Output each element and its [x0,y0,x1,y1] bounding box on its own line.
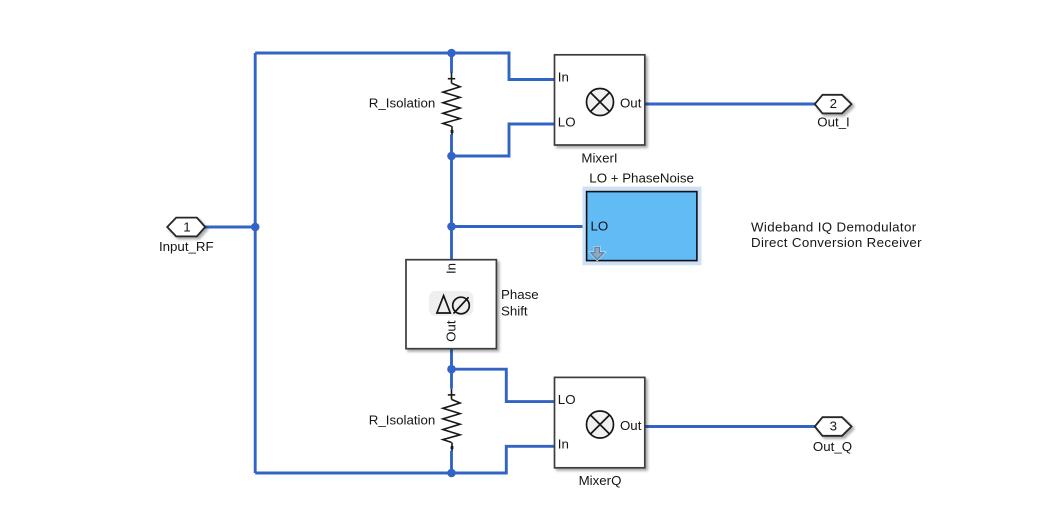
svg-text:Out_I: Out_I [817,115,850,130]
svg-text:R_Isolation: R_Isolation [369,96,436,111]
svg-text:LO + PhaseNoise: LO + PhaseNoise [589,171,694,186]
svg-text:Input_RF: Input_RF [159,239,214,254]
svg-text:In: In [558,436,569,451]
svg-text:MixerI: MixerI [581,151,617,166]
svg-text:Out_Q: Out_Q [813,439,852,454]
svg-text:Shift: Shift [501,304,528,319]
svg-text:Phase: Phase [501,287,539,302]
svg-text:3: 3 [830,419,837,434]
svg-text:MixerQ: MixerQ [579,473,622,488]
svg-text:Wideband IQ Demodulator: Wideband IQ Demodulator [751,219,917,234]
svg-text:Out: Out [444,320,459,342]
svg-text:In: In [558,70,569,85]
svg-text:1: 1 [183,220,190,235]
svg-text:Out: Out [620,418,642,433]
svg-text:LO: LO [591,218,609,233]
svg-text:In: In [444,263,459,274]
svg-text:Direct Conversion Receiver: Direct Conversion Receiver [751,235,922,250]
svg-text:Out: Out [620,96,642,111]
svg-text:LO: LO [558,392,576,407]
svg-text:2: 2 [830,96,837,111]
svg-text:LO: LO [558,114,576,129]
svg-text:R_Isolation: R_Isolation [369,413,436,428]
